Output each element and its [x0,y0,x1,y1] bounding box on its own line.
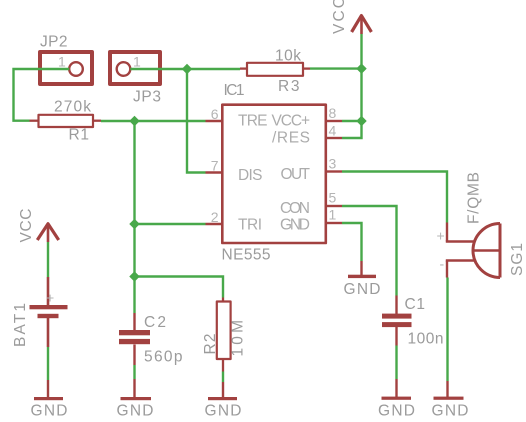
svg-text:6: 6 [211,106,219,122]
wire VCC to BAT1 [47,242,49,277]
power VCC symbol top [352,16,372,34]
wire VCC vertical [360,34,362,121]
svg-text:/RES: /RES [272,130,310,147]
resistor R1 [30,115,102,127]
svg-text:C2: C2 [144,314,166,331]
IC1 pin 3 stub [326,170,342,172]
ground symbol at IC1 pin 1 [348,261,376,278]
svg-text:5: 5 [329,190,337,206]
wire main vertical net [133,121,135,277]
svg-text:10k: 10k [275,48,301,65]
wire BAT1 to ground [47,347,49,380]
IC1 pin 4 stub [326,137,342,139]
capacitor C1 [382,296,412,346]
ground symbol under BAT1 [34,380,63,400]
svg-text:2: 2 [211,209,219,225]
svg-text:+: + [437,228,445,244]
svg-text:1: 1 [329,207,337,223]
svg-text:GND: GND [344,281,381,298]
svg-text:VCC: VCC [18,209,35,243]
svg-text:GND: GND [432,403,469,420]
junction node at R1 / pin6 [129,116,139,126]
svg-text:-: - [440,256,445,272]
svg-text:GND: GND [378,403,415,420]
svg-text:R2: R2 [202,334,219,355]
wire pin 8 link [342,120,362,122]
power VCC symbol left [37,224,58,242]
svg-text:4: 4 [329,123,337,139]
svg-text:R3: R3 [278,78,300,95]
junction node at C2 / R2 branch [129,271,139,281]
svg-text:CON: CON [280,200,310,217]
junction node at R3 / VCC [356,63,366,73]
svg-text:+: + [46,290,54,306]
ground symbol under R2 [208,382,237,400]
op-amp / timer IC1 box [222,105,325,243]
wire C2 to ground [133,365,135,379]
wire JP3 junction to IC1 pin 7 [187,69,206,173]
svg-text:10M: 10M [230,320,247,357]
svg-text:OUT: OUT [281,166,311,183]
svg-text:270k: 270k [54,99,91,116]
wire IC1 pin 3 to SG1 [342,172,447,223]
svg-text:SG1: SG1 [509,243,526,276]
wire JP2 to R1 [14,69,70,121]
svg-text:VCC+: VCC+ [272,113,311,130]
wire SG1 to ground [446,278,448,382]
IC1 pin 6 stub [206,120,223,122]
junction node at JP3 / R3 [182,64,192,74]
wire IC1 pin 1 to ground [342,223,362,261]
svg-text:VCC: VCC [331,0,348,34]
ground symbol under C1 [382,379,412,400]
wire pin 4 link [342,121,362,138]
wire R1 to IC1 pin 6 [101,120,206,122]
svg-text:1: 1 [133,54,141,70]
svg-text:560p: 560p [144,349,183,366]
wire R3 to VCC net [310,67,362,69]
svg-text:IC1: IC1 [224,82,245,99]
svg-text:3: 3 [329,156,337,172]
jumper JP3 [110,52,160,84]
wire JP3 to R3 [130,68,240,70]
speaker SG1 [446,223,500,278]
svg-text:DIS: DIS [238,167,263,184]
IC1 pin 7 stub [206,171,223,173]
junction node at pin 8 / VCC [356,116,366,126]
svg-text:GND: GND [117,403,154,420]
svg-text:NE555: NE555 [222,247,271,264]
svg-text:GND: GND [280,217,310,234]
wire branch to R2 [135,277,224,298]
svg-text:GND: GND [31,403,68,420]
wire branch to C2 [133,277,135,314]
wire R2 to ground [222,372,224,383]
svg-text:GND: GND [205,403,242,420]
capacitor C2 [119,313,150,365]
svg-text:8: 8 [329,105,337,121]
svg-text:C1: C1 [405,296,426,313]
svg-text:TRE: TRE [238,113,268,130]
resistor R2 [217,298,231,372]
wire to IC1 pin 2 [135,223,206,225]
jumper JP2 [40,52,92,84]
ground symbol under SG1 [434,381,464,400]
battery BAT1 [30,277,68,347]
IC1 pin 8 stub [326,120,342,122]
wire C1 to ground [395,346,397,380]
wire IC1 pin 5 to C1 [342,206,397,296]
svg-text:JP2: JP2 [40,34,68,51]
svg-text:1: 1 [58,54,66,70]
IC1 pin 5 stub [326,205,342,207]
junction node at pin 2 [129,219,139,229]
resistor R3 [240,63,310,76]
svg-text:JP3: JP3 [133,89,161,106]
svg-text:R1: R1 [69,127,90,144]
svg-text:TRI: TRI [238,217,262,234]
svg-text:F/QMB: F/QMB [466,172,483,224]
svg-text:100n: 100n [408,331,444,348]
IC1 pin 2 stub [206,223,223,225]
ground symbol under C2 [121,379,152,400]
svg-text:7: 7 [211,158,219,174]
IC1 pin 1 stub [326,222,342,224]
